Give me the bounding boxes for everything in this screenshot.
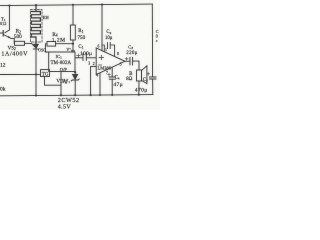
svg-text:1.2M: 1.2M (52, 38, 66, 44)
svg-text:IC1: IC1 (56, 54, 63, 60)
transistor VT1 (5, 30, 9, 33)
zener diode VDW1 (72, 74, 78, 79)
speaker B horn (142, 66, 147, 84)
wire collector VT1 (8, 6, 10, 31)
svg-text:C1: C1 (78, 45, 83, 50)
svg-text:EH: EH (43, 15, 50, 20)
svg-text:C4: C4 (115, 76, 120, 81)
opamp plus sign (99, 55, 104, 60)
wire VS2 cathode down (35, 49, 37, 96)
svg-text:R1: R1 (78, 29, 83, 34)
svg-text:47μ: 47μ (113, 82, 123, 88)
svg-text:3: 3 (88, 62, 90, 66)
wire top rail (0, 4, 152, 6)
svg-text:7: 7 (106, 71, 108, 75)
resistor R1 wire top (72, 5, 74, 25)
resistor R2 box (15, 41, 25, 45)
svg-text:LM386: LM386 (98, 66, 112, 71)
wire bottom rail (0, 95, 153, 96)
svg-text:10μ: 10μ (105, 36, 113, 41)
wire C4 to ground (111, 79, 113, 95)
heater element EH meander (31, 5, 40, 44)
svg-text:012: 012 (0, 21, 6, 26)
capacitor C2 pin1-8 wire (102, 43, 115, 57)
op-amp U1 LM386 triangle (96, 48, 125, 75)
svg-text:470μ: 470μ (135, 88, 148, 94)
junction R1-R4-Vdd node (72, 43, 74, 45)
capacitor C5 plus (147, 72, 150, 75)
junction pin6 / top rail (101, 4, 103, 6)
wire C3 to speaker (133, 61, 139, 70)
capacitor C3 plus (125, 57, 128, 60)
TG pin box (41, 70, 50, 77)
junction VDW1 / bottom rail (74, 94, 76, 96)
resistor R4 box (47, 42, 56, 47)
wire pin2 to ground (91, 66, 96, 95)
svg-text:220μ: 220μ (126, 51, 137, 56)
junction pin2 / bottom rail (90, 94, 92, 96)
capacitor C1 plus (77, 54, 80, 57)
svg-text:c: c (156, 38, 158, 43)
svg-text:VDW1: VDW1 (56, 79, 70, 84)
wire TG to ground (45, 77, 62, 86)
junction speaker / bottom rail (138, 94, 140, 96)
junction VT1 collector / top rail (8, 4, 10, 6)
svg-text:8: 8 (117, 52, 119, 56)
wire C1 to pin3 (86, 57, 96, 59)
wire output to C3 (125, 60, 130, 62)
svg-text:2: 2 (93, 62, 95, 66)
wire speaker to ground (138, 81, 140, 95)
svg-text:4: 4 (96, 74, 98, 78)
junction R1 / top rail (72, 4, 74, 6)
svg-text:1A/400V: 1A/400V (1, 51, 28, 57)
svg-text:1: 1 (105, 48, 107, 52)
wire R1 bottom to Vdd (72, 40, 74, 52)
wire pin7 with C4 (111, 68, 113, 77)
svg-text:O/P: O/P (60, 67, 68, 72)
wire pin6 V+ (101, 5, 103, 51)
opamp minus sign (99, 64, 102, 66)
wire mid rail TG (0, 73, 41, 75)
svg-text:8Ω: 8Ω (126, 77, 133, 82)
svg-text:0k: 0k (0, 87, 6, 93)
svg-text:C5: C5 (143, 78, 148, 83)
svg-text:TM-802A: TM-802A (51, 61, 72, 66)
wire R4 junction (56, 43, 73, 45)
speaker B box (137, 70, 142, 81)
svg-text:TG: TG (42, 73, 49, 78)
wire pin4 to ground (99, 73, 101, 95)
junction C4 / bottom rail (111, 94, 113, 96)
svg-text:2CW52: 2CW52 (58, 97, 80, 104)
svg-text:750: 750 (77, 35, 85, 41)
thyristor VS2 (34, 44, 39, 48)
junction Vss / bottom rail (60, 94, 62, 96)
svg-text:6: 6 (98, 45, 100, 49)
svg-text:12: 12 (0, 63, 6, 69)
wire IC output to C1 (75, 57, 83, 59)
junction VS2 / bottom rail (35, 94, 37, 96)
capacitor C4 bars (109, 77, 115, 79)
dashed enclosure EH (30, 10, 42, 42)
resistor R1 box (70, 25, 75, 40)
junction VS2 cathode / TG rail (35, 73, 37, 75)
capacitor C5 bars (150, 77, 157, 79)
svg-text:OSC: OSC (38, 48, 46, 53)
wire right rail lower (152, 79, 154, 95)
capacitor C4 plus (108, 73, 111, 76)
svg-text:C3: C3 (128, 45, 133, 51)
junction VDW1 / IC bottom (74, 71, 76, 73)
svg-text:100μ: 100μ (80, 51, 92, 57)
junction EH / top rail (35, 4, 37, 6)
svg-text:500: 500 (14, 34, 22, 40)
svg-text:4.5V: 4.5V (58, 104, 72, 110)
wire right rail upper (151, 4, 153, 76)
wire R2 to gate (25, 42, 32, 44)
wire Vss pin to ground (60, 72, 62, 96)
IC1 block (49, 52, 75, 72)
capacitor C1 bars (83, 53, 86, 60)
junction pin4 / bottom rail (99, 94, 101, 96)
svg-text:C2: C2 (106, 30, 111, 35)
wire R4 to OSC pin (45, 44, 48, 52)
svg-text:5: 5 (120, 63, 122, 67)
capacitor C3 bars (130, 57, 133, 65)
zener diode VDW1 wire (74, 72, 76, 96)
